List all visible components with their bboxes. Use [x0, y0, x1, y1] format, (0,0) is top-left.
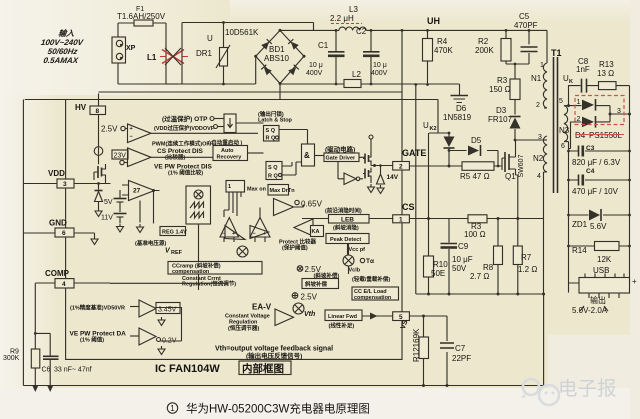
svg-text:Vcc pf: Vcc pf [349, 247, 366, 253]
and gate [302, 144, 325, 166]
svg-text:2.5V: 2.5V [301, 293, 318, 302]
reference 5V battery [114, 190, 127, 212]
pin HV 8 [75, 94, 106, 115]
svg-text:5.6V: 5.6V [590, 222, 607, 231]
wire R10 chain x428 [428, 133, 430, 256]
wire left input loop [118, 23, 178, 84]
svg-text:(保护阈值): (保护阈值) [282, 244, 308, 252]
svg-text:(基准电压源): (基准电压源) [135, 239, 166, 247]
svg-text:N3: N3 [559, 126, 570, 135]
leb block [302, 215, 393, 232]
svg-text:1.2 Ω: 1.2 Ω [518, 265, 537, 274]
capacitor C4 470uF [567, 168, 631, 196]
svg-text:10 μ: 10 μ [309, 62, 323, 69]
connector XP [112, 37, 136, 63]
svg-text:输出: 输出 [590, 295, 606, 305]
diode D5 [448, 136, 498, 156]
bridge BD1 ABS10 [254, 29, 305, 85]
svg-text:VE PW Protect DA: VE PW Protect DA [70, 331, 127, 338]
svg-text:6: 6 [62, 230, 66, 237]
svg-text:1: 1 [228, 184, 231, 190]
resistor R9 300K [3, 283, 40, 392]
ref 2.5V b [292, 293, 317, 302]
svg-text:Gate Driver: Gate Driver [326, 156, 357, 162]
svg-text:R14: R14 [572, 246, 587, 255]
svg-text:LEB: LEB [341, 217, 354, 224]
resistor R10 50E [424, 256, 449, 294]
reference 11V battery [101, 214, 127, 233]
svg-text:Regulation: Regulation [229, 320, 258, 326]
capacitor C3 820uF [567, 145, 631, 167]
svg-text:华为HW-05200C3W充电器电原理图: 华为HW-05200C3W充电器电原理图 [186, 402, 370, 416]
rail sense return y294 [416, 293, 544, 296]
svg-text:IC FAN104W: IC FAN104W [155, 363, 220, 375]
svg-text:VDD: VDD [48, 169, 65, 178]
svg-text:Recovery: Recovery [217, 155, 243, 161]
svg-text:300K: 300K [3, 355, 20, 362]
svg-text:2.5V: 2.5V [101, 125, 118, 134]
comparator 0.2V [70, 307, 182, 355]
linear feed block [325, 310, 393, 330]
svg-text:5.0V-2.0A: 5.0V-2.0A [572, 306, 608, 315]
op-amp error [122, 181, 160, 233]
svg-text:K2: K2 [430, 126, 437, 132]
svg-text:GATE: GATE [402, 148, 426, 158]
node Uk2 label [423, 121, 437, 132]
svg-text:14V: 14V [387, 174, 399, 181]
svg-text:3: 3 [538, 134, 542, 141]
slope comp block [302, 279, 339, 289]
svg-text:2.2 μH: 2.2 μH [330, 14, 354, 23]
pin VS 5 [393, 312, 410, 331]
svg-text:Max DrTn: Max DrTn [270, 188, 296, 194]
svg-text:50E: 50E [431, 269, 445, 278]
svg-text:5: 5 [559, 98, 563, 105]
svg-text:(前沿消隐时间): (前沿消隐时间) [325, 207, 362, 215]
svg-text:R Q: R Q [266, 136, 277, 142]
capacitor C1 [306, 30, 345, 84]
svg-text:compensation: compensation [172, 269, 210, 275]
transformer T1 [531, 30, 570, 294]
svg-text:(1%精度基准)VD50VR: (1%精度基准)VD50VR [70, 304, 125, 312]
cv cc opamps top [225, 226, 269, 240]
svg-text:1: 1 [399, 216, 403, 223]
svg-text:2.7 Ω: 2.7 Ω [470, 272, 489, 281]
svg-text:470PF: 470PF [514, 21, 538, 30]
svg-text:C7: C7 [455, 344, 466, 353]
svg-text:−: − [130, 134, 133, 140]
output label [572, 295, 608, 315]
label OTP [162, 114, 224, 123]
diode D6 1N5819 [443, 104, 472, 166]
fuse F1 label [117, 6, 166, 21]
resistor R8 2.7ohm [470, 219, 503, 295]
svg-text:Vclb: Vclb [349, 268, 361, 274]
resistor R4 [423, 30, 454, 86]
wire HV feed rail y92 [99, 91, 403, 93]
svg-text:C6: C6 [42, 367, 51, 374]
svg-text:(VDD过压保护)VDDOVP: (VDD过压保护)VDDOVP [154, 124, 215, 132]
svg-text:33 nF~ 47nf: 33 nF~ 47nf [54, 367, 92, 374]
svg-text:UH: UH [427, 16, 440, 26]
svg-text:R8: R8 [483, 263, 494, 272]
svg-text:470 μF / 10V: 470 μF / 10V [572, 187, 619, 196]
svg-text:Latch & Stop: Latch & Stop [258, 118, 293, 124]
svg-text:50/60Hz: 50/60Hz [47, 47, 78, 56]
capacitor C2 [356, 27, 388, 84]
label protect comparator [279, 238, 316, 252]
watermark logo wechat bubbles [521, 379, 559, 405]
svg-text:U: U [423, 121, 429, 130]
inductor L3 [330, 5, 371, 30]
caption title [186, 402, 370, 416]
label IC FAN104W [155, 361, 291, 375]
svg-text:1: 1 [577, 99, 581, 106]
svg-text:输入: 输入 [58, 29, 76, 38]
cv opamp [275, 309, 294, 326]
svg-text:C9: C9 [458, 242, 469, 251]
diode D4 dual PS1550L [569, 96, 632, 149]
current source [94, 115, 103, 165]
svg-text:4: 4 [62, 281, 66, 288]
latch U2 SR [264, 126, 308, 145]
svg-text:VE PW Protect DIS: VE PW Protect DIS [154, 164, 212, 171]
svg-text:6: 6 [561, 143, 565, 150]
label constant voltage [225, 314, 270, 333]
svg-text:200K: 200K [475, 46, 494, 55]
svg-text:27: 27 [133, 188, 141, 195]
svg-text:L3: L3 [349, 5, 358, 14]
svg-text:0.5AMAX: 0.5AMAX [43, 56, 79, 65]
driver inverter [338, 162, 363, 185]
svg-text:400V: 400V [371, 70, 388, 77]
svg-text:R4: R4 [437, 37, 448, 46]
resistor R2 [475, 30, 529, 65]
label vref [135, 239, 183, 256]
svg-text:C2: C2 [356, 27, 367, 36]
svg-text:400V: 400V [306, 70, 323, 77]
resistor R14 [567, 242, 631, 276]
svg-text:REG 1.4V: REG 1.4V [162, 230, 187, 236]
svg-text:470K: 470K [434, 46, 453, 55]
resistor R3 150 [489, 64, 520, 115]
svg-text:2: 2 [577, 116, 581, 123]
svg-text:100 Ω: 100 Ω [464, 230, 486, 239]
caption number circle [167, 403, 177, 413]
svg-text:R12169K: R12169K [412, 328, 421, 362]
svg-text:2: 2 [399, 163, 403, 170]
wire bridge to rails [256, 30, 460, 99]
zener 14V clamp [377, 164, 399, 193]
svg-text:R3: R3 [497, 76, 508, 85]
svg-text:(过温保护) OTP: (过温保护) OTP [162, 114, 208, 123]
svg-text:(斜坡消隐): (斜坡消隐) [333, 224, 359, 232]
svg-text:23V: 23V [114, 153, 127, 160]
svg-text:8: 8 [96, 108, 100, 115]
error amp EA up triangle 2 [250, 208, 270, 243]
debounce block [224, 114, 264, 133]
svg-text:COMP: COMP [45, 269, 70, 278]
snubber wire top secondary [569, 86, 630, 115]
svg-text:Auto: Auto [221, 148, 234, 154]
svg-text:(驱动电路): (驱动电路) [325, 145, 355, 154]
svg-text:N2: N2 [533, 154, 544, 163]
USB connector [569, 274, 638, 299]
svg-text:Tα: Tα [366, 258, 374, 265]
resistor R3b 100ohm CS filter [410, 215, 545, 239]
svg-text:150 Ω: 150 Ω [489, 85, 511, 94]
svg-text:Linear Fwd: Linear Fwd [328, 314, 357, 320]
zener 5V [95, 191, 113, 217]
wire drain to pin3 [514, 139, 544, 142]
auto recovery block [213, 146, 264, 161]
input label 输入 100V~240V [38, 29, 86, 65]
svg-text:L1: L1 [147, 53, 157, 62]
choke L1 [147, 48, 188, 65]
svg-text:4: 4 [537, 173, 541, 180]
svg-text:FR107: FR107 [488, 115, 513, 124]
svg-text:S Q: S Q [268, 165, 278, 171]
comparator 23V [112, 148, 213, 167]
svg-text:KA: KA [312, 229, 320, 235]
svg-text:(1% 阈值): (1% 阈值) [80, 336, 104, 344]
svg-text:D5: D5 [471, 136, 482, 145]
N3 winding [564, 105, 569, 107]
capacitor C6 [34, 332, 92, 392]
svg-text:C3: C3 [586, 145, 595, 152]
reg block [160, 227, 187, 236]
label latch [258, 110, 293, 124]
peak detect block [326, 234, 369, 255]
svg-text:PWM(连续工作模式)OFF: PWM(连续工作模式)OFF [152, 140, 214, 148]
capacitor C8 [576, 57, 590, 93]
svg-text:10D561K: 10D561K [225, 28, 259, 37]
wire aux drop x438 [429, 100, 449, 134]
label ve pw protect [154, 164, 212, 177]
svg-text:13 Ω: 13 Ω [597, 69, 614, 78]
N1 winding [546, 30, 548, 63]
svg-text:(1% 阈值比较): (1% 阈值比较) [168, 169, 203, 177]
label vth feedback [215, 346, 333, 361]
svg-text:(输出电压反馈信号): (输出电压反馈信号) [246, 351, 302, 360]
inductor L2 [335, 70, 373, 88]
svg-text:R10: R10 [433, 260, 448, 269]
output rails secondary [569, 114, 630, 293]
svg-text:1: 1 [540, 62, 544, 69]
rail bottom y385 [23, 385, 543, 387]
svg-text:CS Protect DIS: CS Protect DIS [157, 148, 204, 155]
label auto restart [208, 139, 242, 147]
label slope [314, 272, 340, 280]
svg-text:R7: R7 [521, 253, 532, 262]
svg-text:EA-V: EA-V [252, 303, 272, 312]
svg-text:C5: C5 [519, 12, 530, 21]
svg-text:R2: R2 [478, 37, 489, 46]
svg-text:10 μF: 10 μF [452, 255, 473, 264]
protect comparator [294, 219, 324, 237]
svg-text:1N5819: 1N5819 [443, 113, 472, 122]
svg-text:D6: D6 [456, 104, 467, 113]
N2 winding [544, 139, 548, 141]
watermark text [558, 378, 617, 400]
comparator 3.45V [70, 300, 180, 326]
comparator 0.65V [274, 199, 323, 216]
label vcc pf [349, 247, 366, 253]
ground plate primary [451, 84, 469, 103]
diode D3 FR107 [488, 106, 521, 140]
svg-text:C1: C1 [318, 41, 329, 50]
svg-text:22PF: 22PF [452, 354, 471, 363]
driver totem mosfets [363, 135, 393, 193]
latch U3 SR [266, 162, 302, 180]
pin CS 1 [393, 202, 415, 223]
wire gate from pin box [410, 165, 451, 168]
UH rail [335, 16, 547, 32]
pin GND 6 [23, 219, 98, 245]
resistor R12 169K [412, 316, 429, 387]
svg-text:S Q: S Q [266, 128, 276, 134]
svg-text:R Q: R Q [268, 174, 279, 180]
svg-text:3: 3 [63, 181, 67, 188]
svg-text:5V: 5V [104, 199, 113, 206]
wire startup vertical x402 [401, 30, 403, 162]
wire return vertical x416 [414, 83, 417, 294]
varistor DR1 [196, 21, 230, 85]
svg-text:0.65V: 0.65V [301, 200, 323, 209]
svg-text:BD1: BD1 [269, 45, 285, 54]
svg-text:K: K [569, 79, 573, 85]
wire right loop [178, 23, 314, 85]
label 10D561K [225, 28, 259, 37]
svg-text:R13: R13 [599, 60, 614, 69]
svg-text:820 μF / 6.3V: 820 μF / 6.3V [572, 158, 621, 167]
svg-text:Vth: Vth [304, 311, 315, 318]
svg-text:斜坡补偿: 斜坡补偿 [304, 280, 328, 288]
IC box outline [66, 100, 402, 360]
pin VDD 3 [23, 169, 98, 188]
pin COMP 4 [35, 269, 110, 288]
svg-text:&: & [304, 151, 310, 160]
ref 2.5V a [297, 265, 321, 274]
svg-text:R5 47 Ω: R5 47 Ω [460, 172, 490, 181]
svg-text:CS: CS [402, 202, 415, 212]
multiplier 3 [293, 303, 315, 318]
svg-text:Q1: Q1 [505, 172, 516, 181]
svg-text:11V: 11V [101, 215, 113, 222]
svg-text:DR1: DR1 [196, 49, 213, 58]
comparator 2.5V [101, 124, 258, 143]
wire comp pin inner [110, 282, 228, 284]
capacitor C9 [441, 219, 473, 295]
cc comp block [168, 262, 262, 276]
label constant current [182, 276, 236, 288]
svg-text:Vth=output voltage feedback si: Vth=output voltage feedback signal [215, 346, 333, 353]
svg-text:12K: 12K [597, 255, 612, 264]
timing blocks row [224, 181, 295, 218]
svg-text:SW607: SW607 [518, 154, 525, 177]
svg-text:D4: D4 [575, 131, 586, 140]
svg-text:Peak Detect: Peak Detect [330, 237, 361, 243]
svg-text:50V: 50V [452, 264, 467, 273]
label VDD OVP [154, 124, 224, 132]
multiplier 2 timing [343, 244, 374, 275]
wire aux return x543 [542, 293, 545, 386]
svg-text:10 μ: 10 μ [373, 62, 387, 69]
svg-text:PS1550L: PS1550L [589, 131, 622, 140]
capacitor C5 [514, 12, 538, 64]
svg-text:HV: HV [75, 103, 87, 112]
label driver [325, 145, 355, 154]
svg-text:Protect 比较器: Protect 比较器 [279, 238, 316, 246]
svg-text:REF: REF [171, 250, 183, 256]
label pwm off [152, 140, 214, 148]
wire aux rail y99.5 [25, 99, 438, 101]
svg-text:1: 1 [170, 404, 175, 413]
svg-text:T1: T1 [551, 48, 562, 58]
wire VS line [410, 315, 448, 318]
resistor R5 47ohm [449, 151, 502, 182]
label leb [325, 207, 362, 215]
svg-text:U: U [207, 34, 213, 43]
label cs protect [157, 148, 204, 161]
resistor R13 [597, 60, 616, 90]
error amp EA up triangle 1 [220, 218, 239, 243]
capacitor C7 22PF [440, 316, 471, 387]
svg-text:ABS10: ABS10 [264, 54, 289, 63]
svg-text:C4: C4 [586, 168, 595, 175]
svg-text:+: + [632, 277, 637, 286]
resistor R7 1.2ohm [513, 219, 537, 295]
svg-text:L2: L2 [352, 70, 361, 79]
svg-text:GND: GND [49, 219, 67, 228]
svg-text:XP: XP [126, 45, 136, 52]
svg-text:D3: D3 [496, 106, 507, 115]
pin GATE 2 [393, 148, 427, 170]
svg-text:内部框图: 内部框图 [242, 362, 284, 375]
svg-text:ZD1: ZD1 [572, 220, 588, 229]
svg-text:电子报: 电子报 [558, 378, 617, 400]
startup mosfet [94, 164, 111, 190]
svg-text:+: + [130, 126, 133, 132]
transistor Q1 SW607 [502, 140, 525, 219]
label load comp [352, 275, 390, 283]
label EA-V [252, 303, 272, 312]
svg-text:1nF: 1nF [576, 65, 590, 74]
oscillator block [186, 186, 211, 290]
outer frame left [22, 100, 24, 386]
sample block [222, 262, 236, 271]
svg-text:(恒压调节器): (恒压调节器) [228, 324, 259, 332]
zener ZD1 [567, 209, 631, 231]
fuse F1 [134, 20, 153, 26]
gate driver block [324, 153, 365, 162]
load comp block [352, 287, 399, 301]
node UK label [563, 74, 573, 85]
multiplier 1 [237, 246, 248, 257]
svg-text:Max on t: Max on t [247, 187, 269, 193]
svg-text:2: 2 [536, 102, 540, 109]
svg-text:N1: N1 [531, 74, 542, 83]
svg-text:3: 3 [617, 108, 621, 115]
svg-text:(线性补足): (线性补足) [329, 322, 355, 330]
svg-text:100V~240V: 100V~240V [40, 38, 84, 47]
svg-text:(轻载/重载补偿): (轻载/重载补偿) [352, 275, 390, 283]
svg-text:compensation: compensation [354, 295, 392, 301]
